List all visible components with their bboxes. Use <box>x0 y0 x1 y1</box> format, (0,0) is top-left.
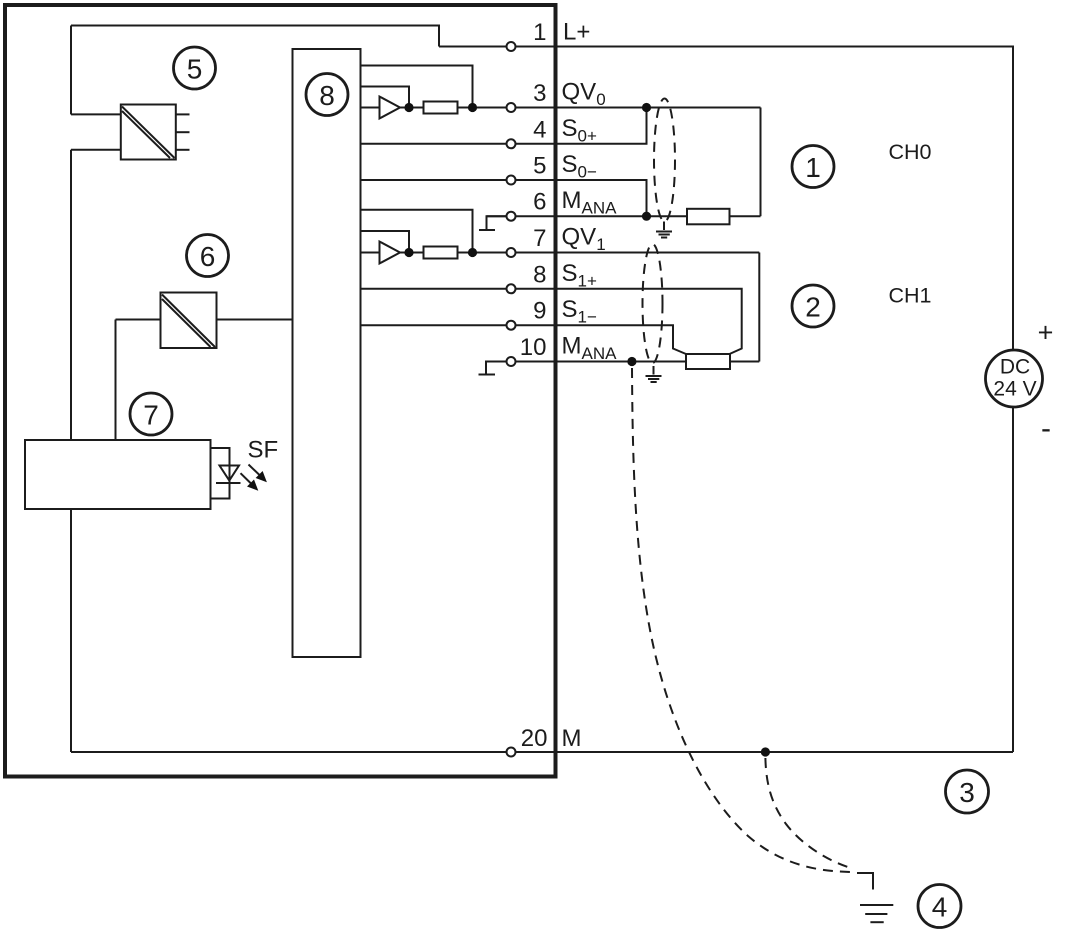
svg-text:20: 20 <box>521 725 548 752</box>
svg-text:+: + <box>1038 318 1054 348</box>
svg-text:4: 4 <box>533 116 546 143</box>
svg-text:M: M <box>562 725 582 752</box>
svg-text:SF: SF <box>248 437 279 464</box>
svg-text:1: 1 <box>805 152 821 183</box>
svg-text:4: 4 <box>932 892 948 923</box>
svg-text:5: 5 <box>533 153 546 180</box>
svg-text:24 V: 24 V <box>993 378 1036 401</box>
svg-text:5: 5 <box>187 54 203 85</box>
svg-text:2: 2 <box>805 292 821 323</box>
svg-text:DC: DC <box>1000 356 1030 379</box>
svg-text:8: 8 <box>319 80 335 111</box>
svg-text:CH0: CH0 <box>889 140 932 164</box>
svg-text:1: 1 <box>533 19 546 46</box>
svg-text:9: 9 <box>533 298 546 325</box>
svg-text:10: 10 <box>520 334 547 361</box>
svg-text:7: 7 <box>533 225 546 252</box>
svg-text:6: 6 <box>533 189 546 216</box>
svg-text:7: 7 <box>143 400 159 431</box>
svg-text:6: 6 <box>200 241 216 272</box>
svg-text:CH1: CH1 <box>889 283 932 307</box>
svg-text:-: - <box>1041 412 1051 445</box>
svg-text:8: 8 <box>533 261 546 288</box>
svg-text:L+: L+ <box>563 19 590 46</box>
svg-text:3: 3 <box>533 80 546 107</box>
svg-text:3: 3 <box>959 777 975 808</box>
